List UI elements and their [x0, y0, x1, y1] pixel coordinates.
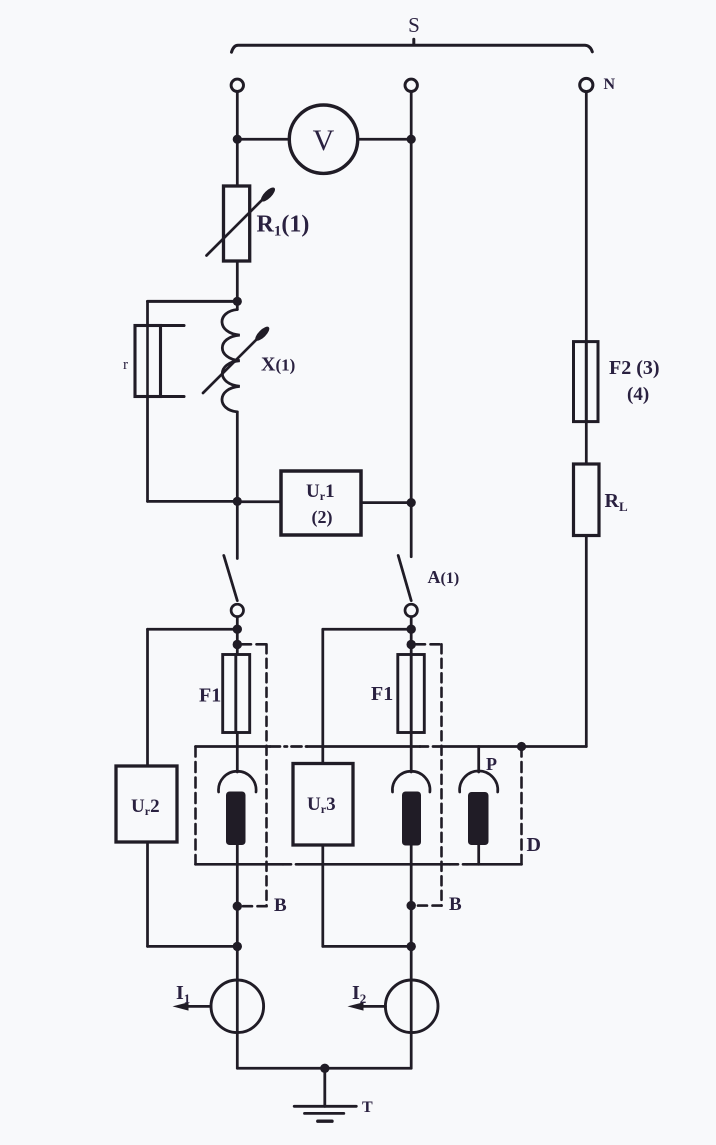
- svg-text:S: S: [408, 13, 420, 37]
- wire: [236, 261, 239, 310]
- dashed edge D enclosure: [520, 747, 523, 865]
- box Ur1 (2): [281, 471, 361, 535]
- resistor R1(1): [224, 186, 250, 261]
- wire: [148, 500, 238, 503]
- junction: [233, 640, 242, 649]
- wire: [148, 628, 238, 631]
- junction: [233, 625, 242, 634]
- junction B1: [233, 902, 242, 911]
- junction: [407, 942, 416, 951]
- resistor RL: [574, 464, 600, 536]
- junction: [320, 1064, 329, 1073]
- current transformer CT3 P: [460, 747, 498, 865]
- wire: [148, 300, 238, 303]
- dashed link B1: [242, 644, 267, 906]
- svg-text:F1: F1: [371, 683, 393, 705]
- svg-text:R1(1): R1(1): [257, 212, 310, 240]
- wire: [146, 397, 149, 502]
- fuse F1 left: [223, 655, 250, 733]
- current transformer CT2: [392, 733, 430, 947]
- wire: [585, 422, 588, 464]
- wire: [237, 1067, 411, 1070]
- svg-text:N: N: [604, 76, 616, 93]
- svg-text:B: B: [274, 895, 287, 916]
- wire: [321, 845, 324, 946]
- wire: [323, 945, 411, 948]
- wire: [323, 628, 411, 631]
- switch blade right A(1): [398, 556, 411, 601]
- dashed link B2: [416, 644, 442, 905]
- wire Ur3 branch: [321, 629, 324, 763]
- svg-text:A(1): A(1): [428, 567, 460, 587]
- fuse F2: [574, 342, 599, 422]
- wire Ur2 branch: [146, 629, 149, 766]
- wire: [148, 945, 238, 948]
- wire: [585, 536, 588, 747]
- svg-text:(2): (2): [312, 507, 333, 528]
- switch blade left: [224, 556, 238, 601]
- wire: [236, 617, 239, 655]
- current transformer CT1: [219, 733, 257, 947]
- switch contact right: [405, 604, 417, 616]
- wire: [410, 92, 413, 557]
- inductor X(1): [222, 310, 240, 412]
- wire: [236, 412, 239, 559]
- rail top: [196, 745, 587, 748]
- junction: [407, 135, 416, 144]
- svg-text:F2 (3): F2 (3): [609, 357, 660, 379]
- svg-text:r: r: [123, 357, 128, 373]
- svg-text:D: D: [527, 834, 541, 856]
- junction: [407, 640, 416, 649]
- wire: [236, 92, 239, 186]
- svg-text:F1: F1: [199, 685, 221, 707]
- junction: [233, 942, 242, 951]
- wire: [237, 500, 281, 503]
- junction node top of X: [233, 297, 242, 306]
- dashed edge left enclosure: [194, 747, 197, 865]
- junction: [233, 135, 242, 144]
- terminal phase-2: [405, 79, 417, 91]
- voltmeter V: [289, 105, 357, 173]
- rail bottom: [196, 863, 522, 866]
- svg-text:X(1): X(1): [261, 354, 295, 376]
- switch contact left: [231, 604, 243, 616]
- current source I2: [385, 980, 438, 1033]
- wire: [358, 138, 412, 141]
- bracket S: [232, 39, 593, 52]
- svg-text:(4): (4): [627, 384, 649, 405]
- junction: [233, 497, 242, 506]
- current source I1: [211, 980, 264, 1033]
- junction: [407, 498, 416, 507]
- terminal phase-1: [231, 79, 243, 91]
- svg-text:V: V: [313, 124, 335, 157]
- wire: [361, 501, 411, 504]
- junction node D: [517, 742, 526, 751]
- fuse F1 right: [398, 655, 425, 733]
- terminal N: [580, 78, 593, 91]
- junction B2: [407, 901, 416, 910]
- box Ur2: [116, 766, 177, 842]
- resistor r: [135, 326, 184, 397]
- ground T: [294, 1068, 356, 1121]
- wire: [146, 842, 149, 946]
- wire: [237, 138, 289, 141]
- wire: [410, 617, 413, 655]
- svg-text:T: T: [362, 1099, 373, 1116]
- box Ur3: [293, 764, 353, 846]
- svg-text:P: P: [486, 754, 497, 774]
- svg-text:B: B: [449, 894, 462, 915]
- wire: [585, 92, 588, 342]
- junction: [407, 625, 416, 634]
- wire: [146, 301, 149, 324]
